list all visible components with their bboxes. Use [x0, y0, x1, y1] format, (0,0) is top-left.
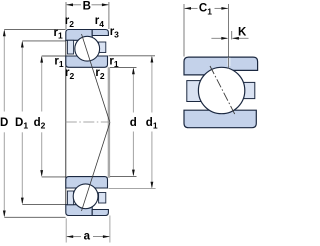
inner ring	[184, 110, 256, 128]
outer ring top, counterbore (right) part	[92, 30, 108, 36]
outer ring bottom, counterbore (right) part	[92, 210, 108, 216]
outer ring bottom, deep (left) part	[66, 205, 92, 216]
dimension d1 vertical with up arrow	[151, 56, 154, 113]
dimension B line right segment with arrow	[92, 3, 109, 6]
dimension a line left segment with arrow	[66, 235, 81, 238]
dimension C1 line right segment with arrow	[215, 7, 229, 10]
dimension D1 vertical with up arrow	[21, 41, 24, 112]
wire d extension top (bore, right side)	[110, 67, 137, 69]
wire D1 extension top (outer shoulder line)	[22, 40, 65, 42]
dimension d2 vertical lower with down arrow	[40, 132, 43, 177]
left side face line between sections	[65, 40, 67, 205]
svg-text:K: K	[238, 27, 247, 39]
lubrication groove in outer ring	[227, 58, 230, 66]
cage left segment bottom	[67, 191, 73, 205]
dimension d vertical with up arrow	[132, 67, 135, 112]
dimension a line right segment with arrow	[93, 235, 110, 238]
contact angle line upper	[82, 34, 110, 123]
dimension K left segment with arrow pointing right	[211, 37, 228, 40]
inner ring bottom	[66, 177, 108, 188]
dimension d vertical lower with down arrow	[132, 132, 135, 177]
wire a extension right	[109, 216, 111, 243]
dimension B line left segment with arrow	[66, 3, 81, 6]
cage right segment bottom	[99, 193, 106, 204]
wire d2 extension bottom	[42, 176, 66, 178]
cage right segment	[99, 42, 106, 53]
wire C1 extension right / K groove line	[228, 4, 230, 66]
dimension d2 vertical with up arrow	[40, 56, 43, 112]
cage left segment	[67, 40, 73, 54]
dimension K right segment with arrow pointing left	[232, 37, 248, 40]
dimension D1 vertical lower with down arrow	[21, 132, 24, 204]
wire D1 extension bottom	[22, 203, 65, 205]
ball bottom	[73, 184, 98, 209]
contact angle line lower	[82, 123, 110, 212]
K groove line crossing outer ring	[228, 57, 230, 68]
cage left segment	[187, 81, 203, 102]
dimension C1 line left segment with arrow	[184, 7, 197, 10]
wire D extension bottom	[4, 216, 65, 218]
dimension D vertical line with up arrow	[3, 29, 6, 111]
wire d extension bottom	[110, 175, 137, 177]
ball top	[75, 36, 100, 61]
svg-text:D: D	[0, 117, 8, 129]
dimension d1 vertical lower with down arrow	[151, 132, 154, 189]
K groove right short line	[231, 31, 233, 40]
outer ring with counterbore step (step hidden behind ball)	[184, 57, 258, 75]
svg-text:B: B	[83, 1, 91, 13]
dimension D vertical line lower with down arrow	[3, 132, 6, 217]
svg-text:a: a	[84, 231, 91, 243]
svg-text:d: d	[130, 117, 137, 129]
contact angle dash-dot line through ball	[210, 66, 235, 115]
ball	[198, 67, 244, 113]
wire B extension line left	[65, 2, 67, 29]
right side face gray band between sections	[108, 67, 110, 177]
wire C1 extension left	[183, 4, 185, 57]
wire B extension line right	[108, 2, 110, 29]
cage right segment	[243, 82, 254, 98]
wire D extension top (outer diameter line)	[4, 29, 65, 31]
inner ring top	[66, 56, 108, 67]
centerline horizontal dash-dot	[66, 121, 110, 123]
wire a extension left	[65, 218, 67, 242]
wire d2 extension top (inner shoulder line)	[42, 55, 66, 57]
wire d1 extension top (right side)	[109, 55, 156, 57]
outer ring top, deep (left) part	[66, 30, 92, 41]
wire d1 extension bottom	[109, 188, 156, 190]
